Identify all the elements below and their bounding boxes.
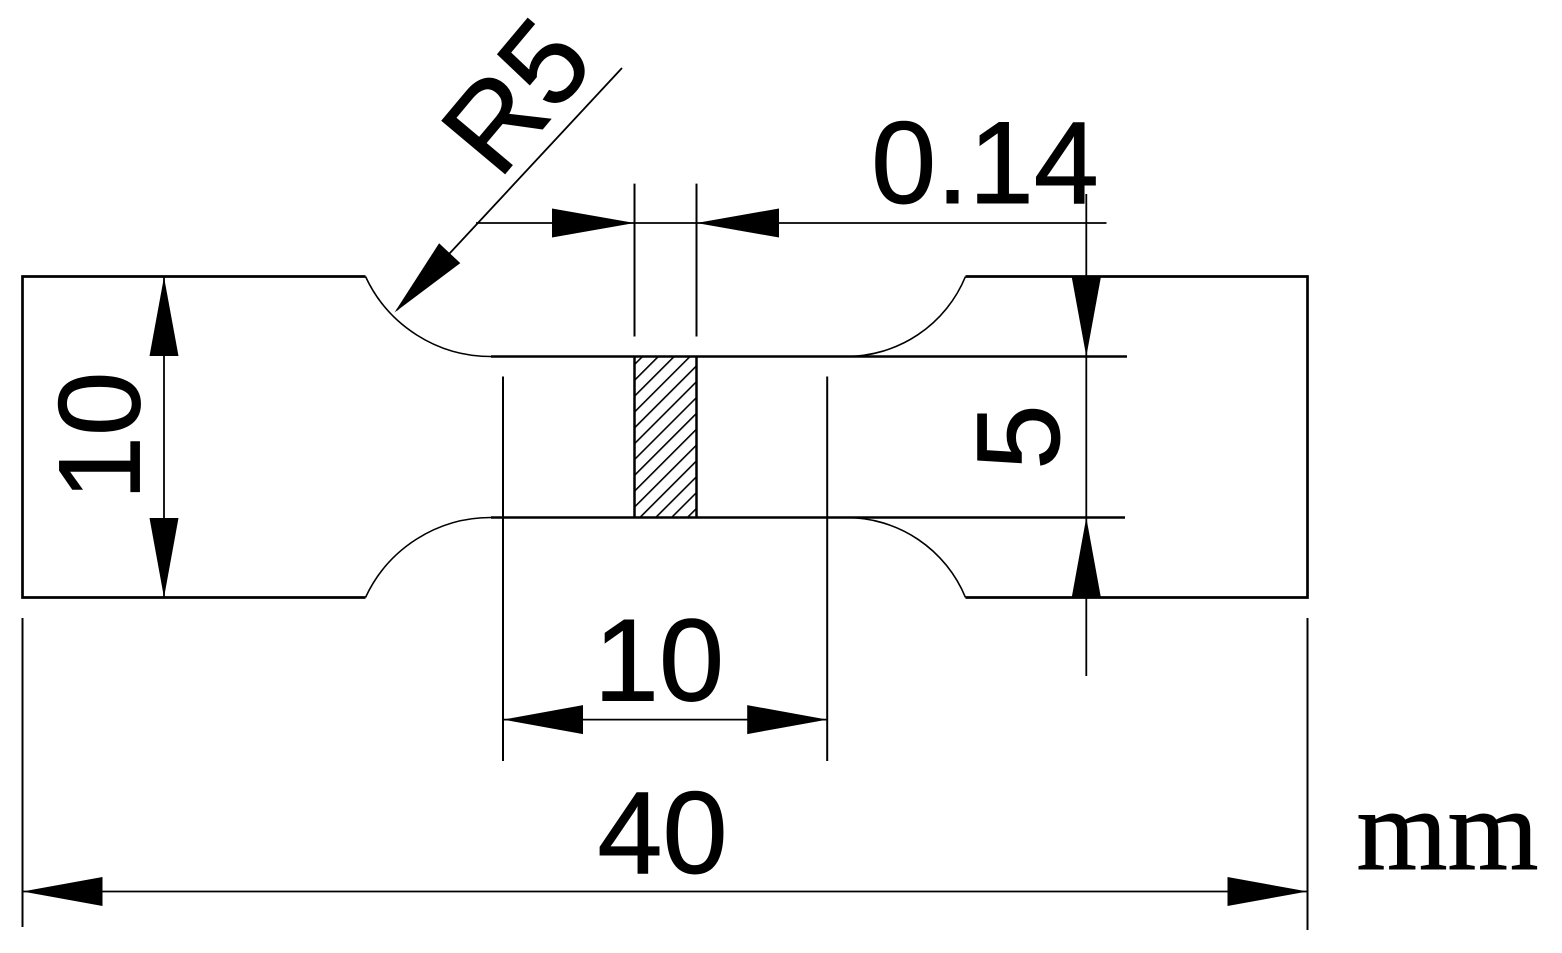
gauge bottom edge + extension line for dim 5 bbox=[491, 516, 1125, 519]
specimen left grip outline bbox=[23, 277, 366, 598]
hatch band right border bbox=[695, 357, 698, 518]
dim 0.14 right extension line bbox=[696, 184, 698, 337]
fillet R5 top-right bbox=[846, 277, 966, 357]
fillet R5 bottom-left bbox=[366, 517, 492, 597]
dim 10 bottom left extension line bbox=[502, 377, 504, 762]
R5 leader arrowhead bbox=[395, 243, 461, 312]
dim 5 bottom arrow (up) bbox=[1072, 518, 1101, 598]
dim 10 bottom left arrow bbox=[503, 705, 583, 734]
svg-text:10: 10 bbox=[35, 371, 165, 500]
dim 5 top arrow (down) bbox=[1072, 278, 1101, 357]
gauge top edge + extension line for dim 5 bbox=[491, 355, 1127, 358]
svg-text:40: 40 bbox=[597, 767, 727, 898]
dim 10 left up arrow bbox=[150, 277, 179, 356]
fillet R5 top-left bbox=[366, 277, 492, 357]
dim 10 bottom right arrow bbox=[747, 705, 827, 734]
svg-text:5: 5 bbox=[953, 404, 1085, 470]
fillet R5 bottom-right bbox=[846, 517, 966, 597]
svg-text:10: 10 bbox=[594, 595, 724, 726]
dim 0.14 right arrow bbox=[697, 209, 780, 238]
dim 40 left arrow bbox=[23, 877, 103, 906]
dim 40 dimension line bbox=[23, 891, 1308, 893]
svg-text:0.14: 0.14 bbox=[871, 97, 1099, 228]
dim 10 bottom right extension line bbox=[826, 377, 828, 762]
dim 40 left extension line bbox=[22, 618, 24, 927]
dim 10 left dimension line bbox=[163, 277, 165, 598]
R5 leader line bbox=[397, 68, 622, 310]
dim 10 left down arrow bbox=[150, 518, 179, 598]
dim 10 bottom dimension line bbox=[503, 719, 827, 721]
dim 40 right arrow bbox=[1228, 877, 1308, 906]
hatch band left border bbox=[633, 357, 636, 518]
dim 0.14 left extension line bbox=[634, 184, 636, 337]
dim 40 right extension line bbox=[1307, 618, 1309, 930]
svg-text:mm: mm bbox=[1356, 766, 1538, 895]
dim 5 dimension line bbox=[1085, 194, 1087, 676]
specimen right grip outline bbox=[966, 277, 1308, 598]
hatched cross-section band bbox=[635, 357, 697, 518]
dim 0.14 left arrow bbox=[552, 209, 635, 238]
dim 0.14 dimension line bbox=[476, 222, 1107, 224]
